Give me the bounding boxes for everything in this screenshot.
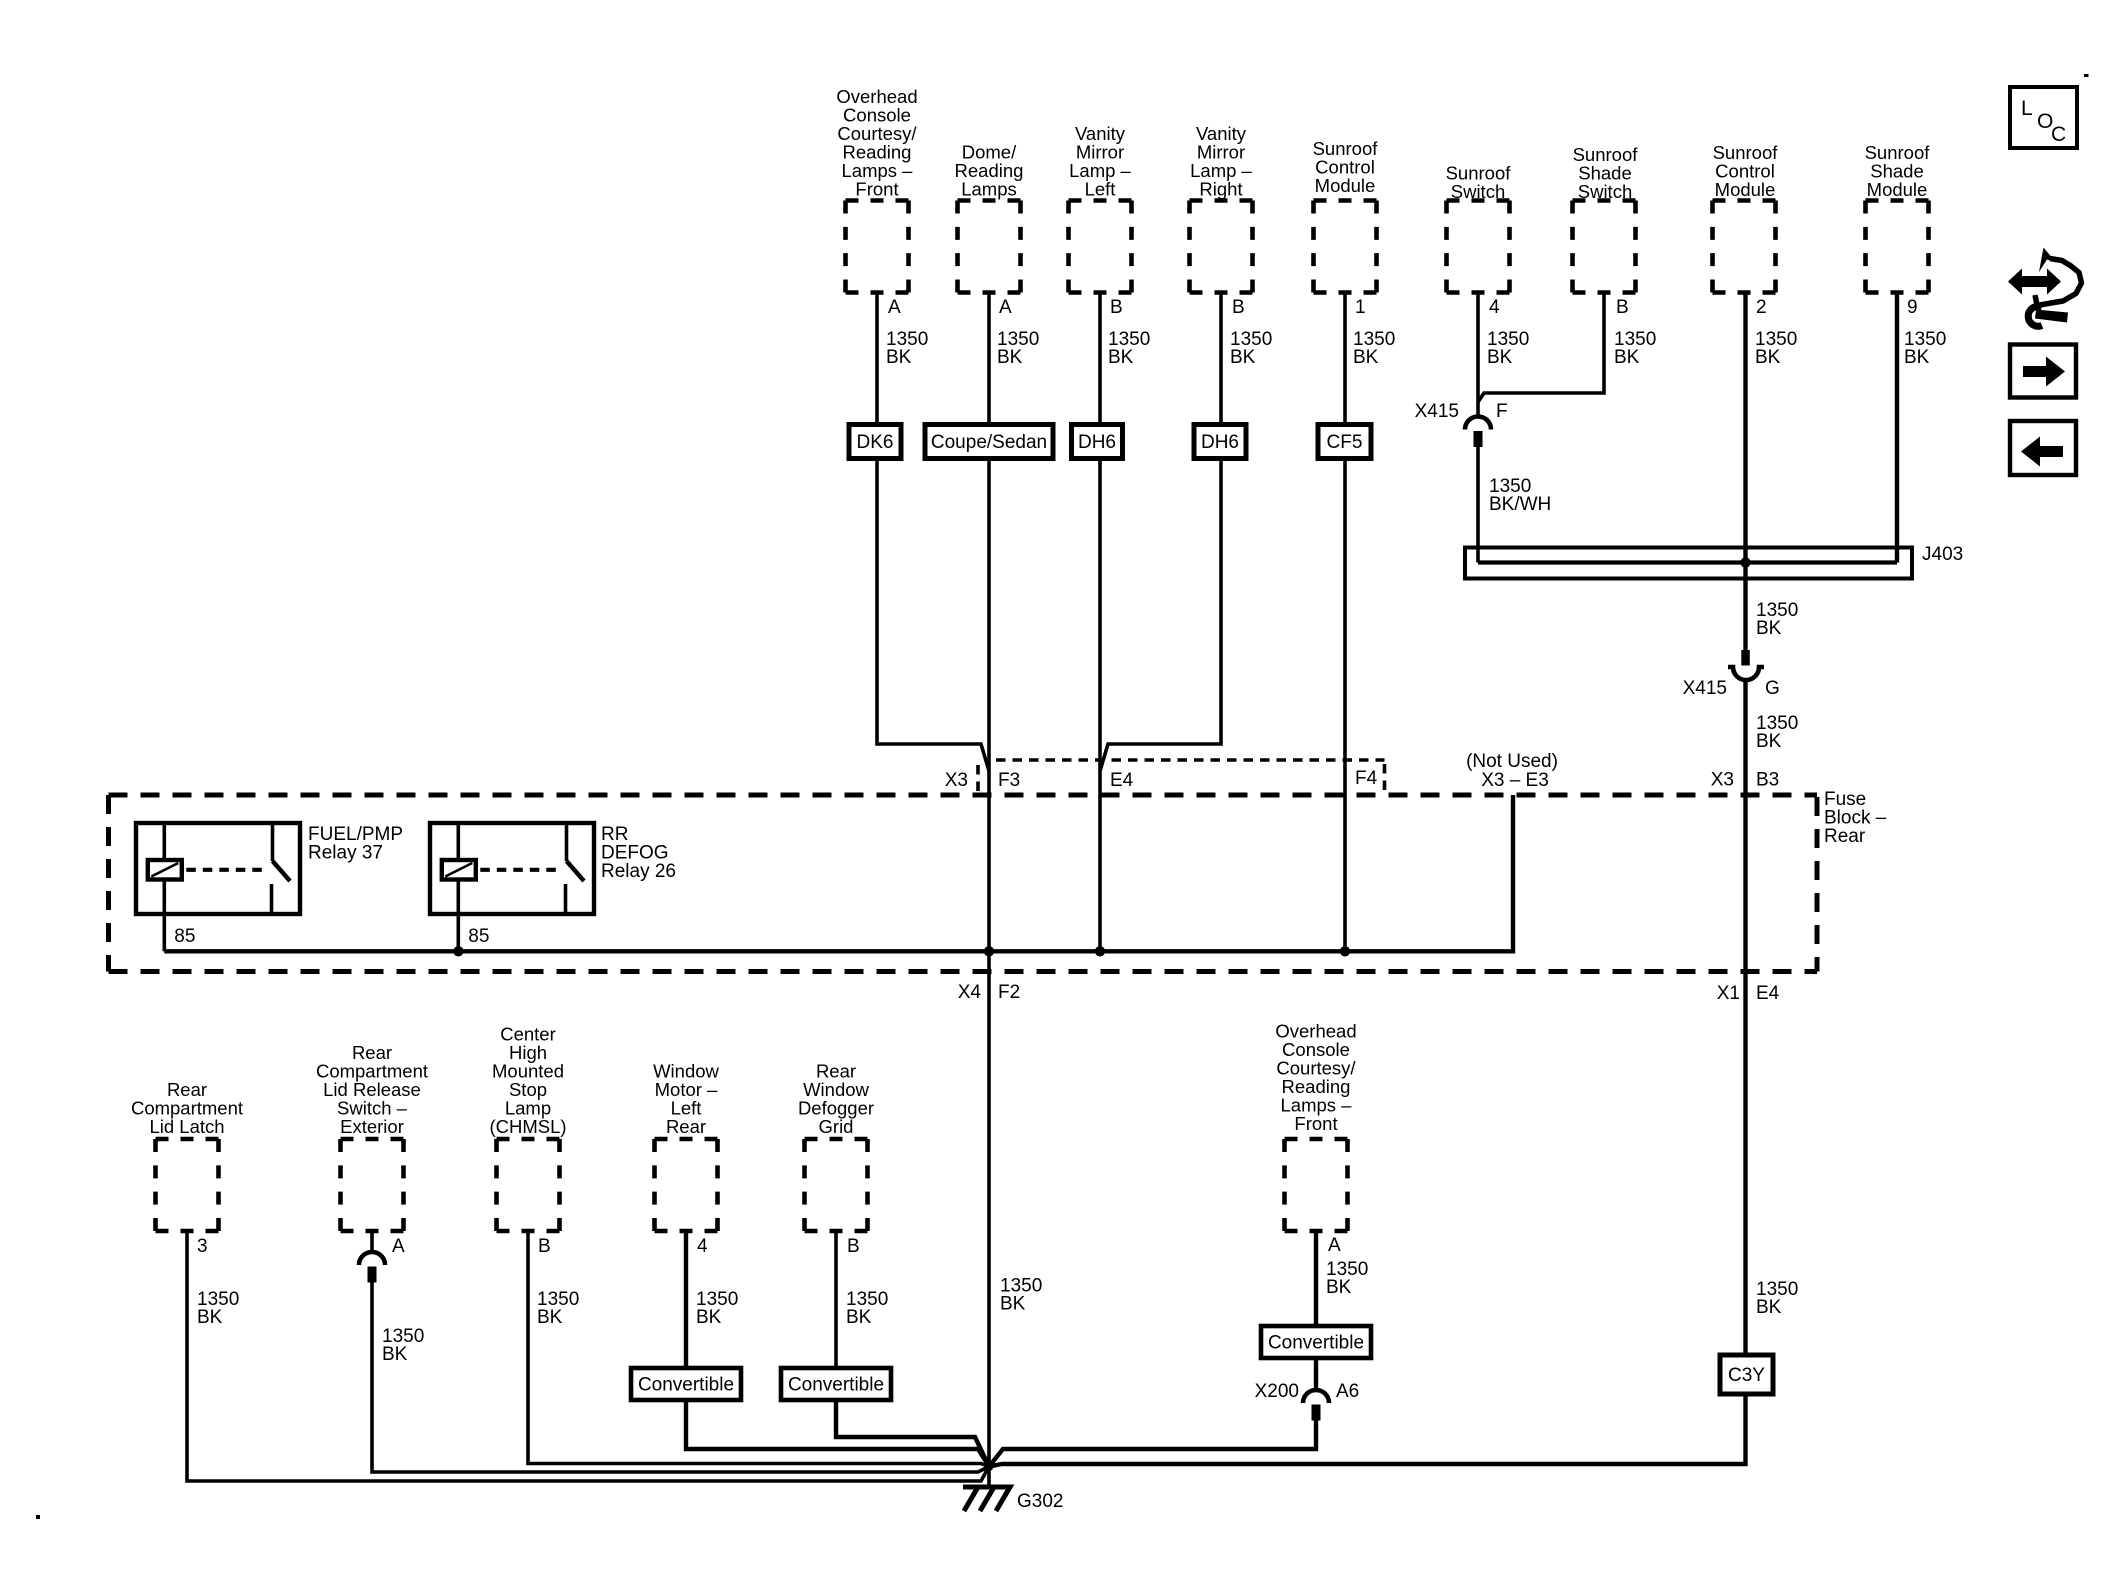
svg-text:B: B	[538, 1236, 551, 1257]
label: Sunroof Shade Module title	[1865, 142, 1931, 200]
svg-text:C: C	[2051, 123, 2066, 146]
svg-text:Grid: Grid	[819, 1116, 854, 1137]
label: wire 1350 BK (circuit 1350 col6)	[1487, 329, 1529, 368]
svg-text:X415: X415	[1683, 678, 1727, 699]
svg-text:BK: BK	[1904, 347, 1930, 368]
svg-text:DH6: DH6	[1201, 432, 1239, 453]
svg-text:F2: F2	[998, 982, 1020, 1003]
label: wire 1350 BK (below X415 G)	[1756, 713, 1798, 752]
label: Sunroof Control Module 2 title	[1713, 142, 1779, 200]
label: Rear Compartment Lid Release Switch - Exterior title	[316, 1042, 428, 1137]
svg-text:X3: X3	[945, 770, 968, 791]
component box: Sunroof Shade Module	[1866, 201, 1929, 293]
svg-text:A6: A6	[1336, 1381, 1359, 1402]
svg-text:85: 85	[174, 926, 195, 947]
label: wire 1350 BK (overhead console bottom wire)	[1326, 1259, 1368, 1298]
svg-text:Left: Left	[1085, 179, 1116, 200]
label: wire 1350 BK/WH (1350 BK/WH below X415 F)	[1489, 476, 1551, 515]
label: wire 1350 BK (circuit 1350 col9)	[1904, 329, 1946, 368]
svg-text:4: 4	[1489, 297, 1500, 318]
junction dot vanity wire at bus	[1095, 946, 1105, 956]
svg-text:CF5: CF5	[1327, 432, 1363, 453]
component box: Overhead Console Courtesy/Reading Lamps - Front	[846, 201, 909, 293]
svg-text:C3Y: C3Y	[1728, 1365, 1765, 1386]
wire: sunroof shade switch pin B over to sunroof switch wire	[1478, 293, 1604, 403]
svg-text:BK: BK	[1326, 1277, 1352, 1298]
svg-text:BK: BK	[537, 1307, 563, 1328]
wire: overhead console front A to DK6	[875, 293, 879, 425]
tag box DH6 (vanity left circuit tag)	[1072, 425, 1123, 459]
svg-text:A: A	[888, 297, 901, 318]
svg-text:B: B	[847, 1236, 860, 1257]
icon: LOC reference box	[2010, 87, 2077, 148]
splice pack J403	[1465, 548, 1912, 579]
wire: window motor 4 to Convertible	[684, 1231, 688, 1368]
component box: Sunroof Shade Switch	[1573, 201, 1636, 293]
component box: Vanity Mirror Lamp - Left	[1069, 201, 1132, 293]
wire: overhead console bottom A to Convertible	[1314, 1231, 1318, 1326]
label: Overhead Console Courtesy/Reading Lamps - Front (bottom) title	[1275, 1021, 1356, 1135]
svg-text:L: L	[2021, 97, 2033, 120]
label: wire 1350 BK (circuit 1350 col3)	[1108, 329, 1150, 368]
svg-text:Rear: Rear	[666, 1116, 706, 1137]
label: wire 1350 BK (circuit 1350 col8)	[1755, 329, 1797, 368]
label: Sunroof Control Module title	[1313, 138, 1379, 196]
terminal (Not Used) X3 - E3	[1466, 751, 1558, 791]
svg-text:G302: G302	[1017, 1491, 1063, 1512]
wire: vanity right B to DH6	[1219, 293, 1223, 425]
inline connector lid release inline connector	[359, 1252, 385, 1283]
svg-text:BK: BK	[382, 1344, 408, 1365]
svg-text:E4: E4	[1110, 770, 1134, 791]
junction dot dome wire at bus	[984, 946, 994, 956]
wire: CHMSL B to G302	[528, 1231, 989, 1467]
label: wire 1350 BK (below J403)	[1756, 600, 1798, 639]
component box: Sunroof Control Module 2	[1713, 201, 1776, 293]
wire: defogger B to Convertible	[834, 1231, 838, 1368]
svg-text:85: 85	[468, 926, 489, 947]
wire: dome lamp main drop (Coupe/Sedan to fuse block F3)	[987, 459, 991, 952]
tag box DH6 (vanity right circuit tag)	[1194, 425, 1246, 459]
svg-text:F4: F4	[1355, 768, 1378, 789]
terminal labels X1 / E4 (bottom right)	[1717, 983, 1780, 1004]
svg-text:Lid Latch: Lid Latch	[149, 1116, 224, 1137]
wire: lid latch 3 to G302	[187, 1231, 989, 1481]
svg-text:Convertible: Convertible	[1268, 1333, 1364, 1354]
label: Overhead Console Courtesy/Reading Lamps - Front title	[836, 86, 917, 200]
component box: Rear Compartment Lid Release Switch - Exterior	[341, 1139, 404, 1231]
icon: power distribution (arrow/wrench)	[2008, 248, 2082, 327]
connector X415 cavity G	[1728, 650, 1764, 680]
component box: Overhead Console Courtesy/Reading Lamps - Front (bottom)	[1285, 1139, 1348, 1231]
wire: X200 to G302	[989, 1420, 1316, 1467]
wire: C3Y to G302	[989, 1394, 1746, 1467]
svg-text:BK: BK	[696, 1307, 722, 1328]
svg-text:(CHMSL): (CHMSL)	[489, 1116, 566, 1137]
wire: sunroof control module 2 pin 2 to J403	[1743, 293, 1747, 563]
component box: Vanity Mirror Lamp - Right	[1190, 201, 1253, 293]
wire: J403 output to X415 G	[1743, 563, 1747, 651]
component box: Rear Window Defogger Grid	[805, 1139, 868, 1231]
component box: Sunroof Switch	[1447, 201, 1510, 293]
svg-text:Lamps: Lamps	[961, 179, 1017, 200]
svg-text:BK: BK	[1756, 731, 1782, 752]
label: Rear Compartment Lid Latch title	[131, 1079, 243, 1137]
relay RR DEFOG Relay 26	[430, 823, 594, 914]
wire: relay FUEL/PMP Relay 37 pin 85	[163, 914, 167, 951]
svg-text:Front: Front	[855, 179, 898, 200]
label: Vanity Mirror Lamp - Left title	[1069, 123, 1131, 200]
svg-text:BK: BK	[1000, 1294, 1026, 1315]
label: wire 1350 BK (circuit 1350 col1)	[886, 329, 928, 368]
inline connector X415 F	[1465, 417, 1491, 447]
component box: CHMSL	[497, 1139, 560, 1231]
label: wire 1350 BK (lid latch wire)	[197, 1289, 239, 1328]
qualifier box Convertible (defogger)	[781, 1368, 891, 1400]
wire: sunroof switch pin 4 down to X415 F	[1476, 293, 1480, 418]
inline connector X200 A6	[1303, 1390, 1329, 1421]
component box: Sunroof Control Module	[1314, 201, 1377, 293]
wire: lid release A upper stub	[370, 1231, 374, 1252]
label: wire 1350 BK (circuit 1350 col4)	[1230, 329, 1272, 368]
svg-text:Module: Module	[1867, 179, 1928, 200]
svg-text:A: A	[392, 1236, 405, 1257]
label RR DEFOG Relay 26	[601, 824, 676, 882]
label: Rear Window Defogger Grid title	[798, 1061, 874, 1138]
svg-text:1: 1	[1355, 297, 1366, 318]
junction dot CF5 wire at bus	[1340, 946, 1350, 956]
svg-text:2: 2	[1756, 297, 1767, 318]
label: wire 1350 BK (CHMSL wire)	[537, 1289, 579, 1328]
svg-text:BK/WH: BK/WH	[1489, 494, 1551, 515]
relay FUEL/PMP Relay 37	[136, 823, 300, 914]
svg-text:G: G	[1765, 678, 1780, 699]
component box: Rear Compartment Lid Latch	[156, 1139, 219, 1231]
svg-text:F: F	[1496, 401, 1508, 422]
svg-text:BK: BK	[1353, 347, 1379, 368]
svg-text:Convertible: Convertible	[788, 1375, 884, 1396]
wire: sunroof shade module pin 9 to J403	[1895, 293, 1899, 563]
junction dot relay 26 pin 85	[453, 946, 463, 956]
svg-text:Rear: Rear	[1824, 826, 1866, 847]
label: wire 1350 BK (C3Y wire)	[1756, 1279, 1798, 1318]
svg-text:DK6: DK6	[857, 432, 894, 453]
wire: vanity left drop DH6 to fuse bus	[1098, 459, 1102, 952]
label: wire 1350 BK (lid release wire)	[382, 1326, 424, 1365]
svg-text:Right: Right	[1199, 179, 1242, 200]
svg-text:9: 9	[1907, 297, 1918, 318]
ground G302 symbol	[963, 1487, 1010, 1511]
circuit tag C3Y	[1720, 1355, 1773, 1394]
connector X415 G labels	[1683, 678, 1780, 699]
label: wire 1350 BK (circuit 1350 col2)	[997, 329, 1039, 368]
wire: main dome circuit F2 down to G302	[987, 951, 991, 1487]
svg-text:BK: BK	[886, 347, 912, 368]
wire: lid release to G302	[372, 1282, 989, 1472]
wire: CF5 drop to fuse bus F4	[1343, 459, 1347, 952]
label: CHMSL title	[489, 1024, 566, 1138]
svg-text:Coupe/Sedan: Coupe/Sedan	[931, 432, 1047, 453]
svg-text:BK: BK	[997, 347, 1023, 368]
svg-text:X3: X3	[1711, 770, 1734, 791]
decorative dot bottom left	[36, 1515, 40, 1519]
label: Sunroof Shade Switch title	[1573, 144, 1639, 202]
svg-text:4: 4	[697, 1236, 708, 1257]
label: wire 1350 BK (main ground wire at F2)	[1000, 1276, 1042, 1315]
wire: dome/reading lamps A to Coupe/Sedan	[987, 293, 991, 425]
svg-text:BK: BK	[1756, 618, 1782, 639]
terminal labels X4 / F2	[958, 982, 1020, 1003]
label: Vanity Mirror Lamp - Right title	[1190, 123, 1252, 200]
svg-text:F3: F3	[998, 770, 1020, 791]
wire: overhead console Convertible to X200	[1314, 1358, 1318, 1390]
svg-text:DH6: DH6	[1078, 432, 1116, 453]
component box: Window Motor - Left Rear	[655, 1139, 718, 1231]
svg-text:Convertible: Convertible	[638, 1375, 734, 1396]
wire: relay RR DEFOG Relay 26 pin 85	[456, 914, 460, 951]
svg-text:X200: X200	[1255, 1381, 1299, 1402]
svg-text:(Not Used): (Not Used)	[1466, 751, 1558, 772]
svg-text:X1: X1	[1717, 983, 1740, 1004]
svg-text:Module: Module	[1315, 175, 1376, 196]
qualifier box Convertible (window motor)	[631, 1368, 741, 1400]
svg-text:X3 – E3: X3 – E3	[1481, 770, 1549, 791]
decorative tick near LOC	[2084, 74, 2089, 77]
wire: window motor Convertible to G302	[686, 1400, 989, 1467]
svg-text:BK: BK	[197, 1307, 223, 1328]
label: wire 1350 BK (circuit 1350 col5)	[1353, 329, 1395, 368]
tag box CF5 (sunroof control module circuit tag)	[1318, 425, 1371, 459]
label FUEL/PMP Relay 37	[308, 824, 403, 864]
svg-text:X4: X4	[958, 982, 982, 1003]
svg-text:Exterior: Exterior	[340, 1116, 404, 1137]
wire: sunroof control module 1 to CF5	[1343, 293, 1347, 425]
wire: relay 85 ground bus across fuse block to X3-E3 stub	[164, 795, 1513, 951]
wire: X415 F to J403 splice pack	[1476, 447, 1480, 563]
svg-text:B: B	[1616, 297, 1629, 318]
label: wire 1350 BK (window motor wire)	[696, 1289, 738, 1328]
terminal labels X3 / F3	[945, 770, 1020, 791]
label: wire 1350 BK (defogger wire)	[846, 1289, 888, 1328]
wire: defogger Convertible to G302	[836, 1400, 989, 1467]
svg-text:E4: E4	[1756, 983, 1780, 1004]
junction: G302 convergence	[985, 1462, 994, 1471]
connector X415 cavity F label	[1415, 401, 1508, 422]
wire: DK6 down and over to dome wire	[877, 459, 989, 772]
svg-text:BK: BK	[1756, 1297, 1782, 1318]
svg-text:Relay 37: Relay 37	[308, 843, 383, 864]
svg-text:BK: BK	[1487, 347, 1513, 368]
wire: vanity left B to DH6	[1098, 293, 1102, 425]
svg-text:J403: J403	[1922, 544, 1963, 565]
svg-text:Relay 26: Relay 26	[601, 861, 676, 882]
svg-text:BK: BK	[1230, 347, 1256, 368]
label: Sunroof Switch title	[1446, 163, 1512, 203]
tag box DK6 (overhead console circuit tag)	[849, 425, 901, 459]
tag box Coupe/Sedan (dome lamps qualifier)	[925, 425, 1053, 459]
wire: vanity right DH6 over to vanity left wire	[1100, 459, 1221, 772]
connector X200 cavity A6 labels	[1255, 1381, 1360, 1402]
svg-text:A: A	[1328, 1235, 1341, 1256]
svg-text:A: A	[999, 297, 1012, 318]
svg-text:Front: Front	[1294, 1113, 1337, 1134]
svg-text:Module: Module	[1715, 179, 1776, 200]
label: wire 1350 BK (circuit 1350 col7)	[1614, 329, 1656, 368]
svg-text:B3: B3	[1756, 770, 1779, 791]
svg-text:BK: BK	[1614, 347, 1640, 368]
fuse block - rear boundary (dashed)	[109, 795, 1818, 972]
connector X3 row dashed outline (not used row)	[978, 760, 1385, 792]
label: Fuse Block - Rear	[1824, 789, 1887, 847]
svg-text:3: 3	[197, 1236, 208, 1257]
component box: Dome/Reading Lamps	[958, 201, 1021, 293]
qualifier box Convertible (overhead console bottom)	[1261, 1326, 1371, 1358]
icon: forward arrow box	[2010, 345, 2076, 398]
svg-text:B: B	[1110, 297, 1123, 318]
svg-text:X415: X415	[1415, 401, 1459, 422]
terminal labels X3 / B3 (right)	[1711, 770, 1780, 791]
label: Dome/Reading Lamps title	[955, 142, 1024, 200]
svg-text:B: B	[1232, 297, 1245, 318]
icon: back arrow box	[2010, 421, 2076, 475]
svg-text:BK: BK	[846, 1307, 872, 1328]
svg-text:BK: BK	[1108, 347, 1134, 368]
svg-text:BK: BK	[1755, 347, 1781, 368]
label: Window Motor - Left Rear title	[653, 1061, 719, 1138]
wire: X415 G down through fuse block (B3/E4) to C3Y	[1743, 680, 1747, 1355]
